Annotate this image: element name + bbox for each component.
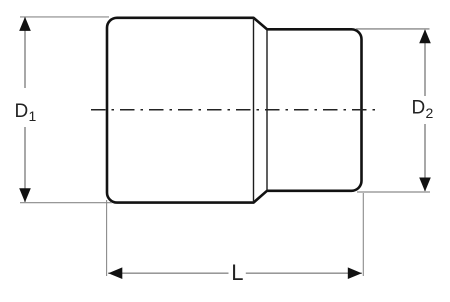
svg-text:D: D (412, 98, 426, 119)
extension line bottom-left (20, 202, 112, 204)
svg-text:1: 1 (29, 108, 37, 124)
svg-text:L: L (231, 260, 243, 285)
arrowhead L right (348, 267, 362, 279)
arrowhead D1 down (19, 188, 31, 202)
extension line bottom-left vertical (L) (106, 200, 108, 276)
dimension line L right segment (246, 272, 362, 274)
arrowhead D2 up (419, 29, 431, 43)
dimension line D1 upper segment (24, 18, 26, 89)
dimension line D2 lower segment (424, 124, 426, 191)
shoulder edge line (small cylinder left face) (266, 29, 268, 191)
arrowhead L left (108, 267, 122, 279)
dimension line L left segment (108, 272, 229, 274)
extension line top-right (356, 28, 430, 30)
centerline (dash-dot axis) (91, 109, 377, 111)
arrowhead D2 down (419, 178, 431, 192)
svg-text:2: 2 (426, 105, 434, 121)
dimension line D1 lower segment (24, 127, 26, 202)
shoulder edge line (large body right face) (253, 18, 255, 203)
extension line top-left (20, 16, 109, 18)
extension line bottom-right vertical (L) (362, 193, 364, 276)
dimension line D2 upper segment (424, 30, 426, 96)
arrowhead D1 up (19, 17, 31, 31)
socket body outline (107, 18, 362, 203)
svg-text:D: D (15, 101, 29, 122)
extension line bottom-right (357, 191, 430, 193)
